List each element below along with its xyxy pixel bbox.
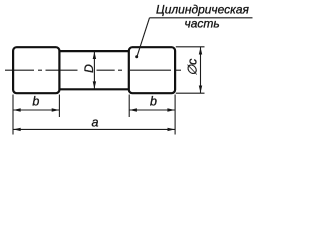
svg-text:D: D bbox=[82, 64, 96, 73]
dimension c line bbox=[200, 47, 202, 93]
leader shelf (underline) bbox=[150, 17, 253, 19]
extension line top (for diameter c) bbox=[176, 46, 205, 48]
body tube top edge bbox=[59, 50, 128, 52]
dimension b left line bbox=[13, 109, 59, 111]
svg-text:b: b bbox=[150, 95, 157, 109]
extension line bottom (for diameter c) bbox=[176, 92, 205, 94]
right cap (contact, cylindrical part) bbox=[129, 47, 175, 93]
extension line right-inner (for b) bbox=[128, 95, 130, 118]
svg-text:часть: часть bbox=[185, 17, 220, 31]
dimension b right line bbox=[129, 109, 175, 111]
extension line left-inner (for b) bbox=[58, 95, 60, 118]
svg-text:a: a bbox=[92, 116, 99, 130]
extension line right (for b and a) bbox=[174, 95, 176, 135]
svg-text:∅c: ∅c bbox=[186, 58, 200, 76]
body tube bottom edge bbox=[59, 88, 128, 90]
leader line to cylindrical part bbox=[137, 18, 150, 57]
dimension a line bbox=[13, 128, 175, 130]
centerline (axis) bbox=[5, 69, 181, 71]
svg-text:b: b bbox=[32, 95, 39, 109]
extension line left (for b and a) bbox=[12, 95, 14, 135]
left cap (contact) bbox=[13, 47, 59, 93]
svg-text:Цилиндрическая: Цилиндрическая bbox=[156, 3, 250, 17]
dimension D line bbox=[93, 52, 95, 89]
